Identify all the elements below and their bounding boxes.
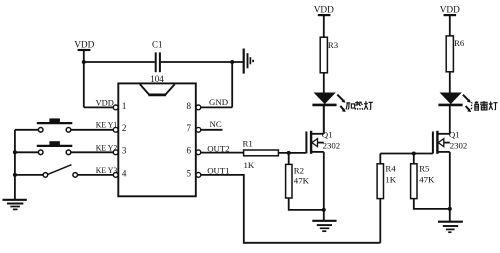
resistor R5 — [411, 164, 430, 199]
capacitor C1 — [152, 39, 163, 72]
switch S2 (push button KEY2) — [15, 141, 113, 154]
wire R2 bottom to source ground — [289, 198, 324, 210]
pin 5 circle — [196, 173, 201, 178]
svg-text:4: 4 — [122, 168, 127, 178]
wire VDD branch to pin 1 — [84, 62, 114, 107]
pin 2 circle — [113, 127, 118, 132]
resistor R4 — [377, 164, 396, 199]
node R5/gate junction — [412, 152, 416, 156]
svg-text:2302: 2302 — [323, 141, 341, 151]
svg-text:5: 5 — [187, 168, 192, 178]
pin 1 circle — [113, 105, 118, 110]
svg-text:KE Y3: KE Y3 — [96, 165, 118, 175]
svg-text:R4: R4 — [385, 164, 396, 174]
wire LED to drain — [449, 106, 451, 134]
LED D1 (heating lamp) — [312, 93, 345, 113]
svg-text:R2: R2 — [294, 165, 304, 175]
svg-text:KE Y1: KE Y1 — [96, 120, 118, 130]
node source/R5 junction — [448, 207, 452, 211]
wire R4 bottom to OUT1 net — [379, 199, 381, 243]
svg-text:1K: 1K — [244, 160, 255, 170]
pin 3 circle — [113, 150, 118, 155]
svg-text:8: 8 — [187, 101, 192, 111]
svg-text:47K: 47K — [419, 174, 435, 184]
wire R3 to LED — [323, 73, 325, 93]
wire R1 to gate Q1 — [278, 152, 306, 154]
wire left rail — [14, 130, 16, 200]
power symbol VDD (left, supply to IC) — [74, 41, 94, 62]
node gate/R2 junction — [287, 151, 291, 155]
power symbol VDD (above R3) — [314, 5, 334, 37]
svg-text:2: 2 — [122, 123, 127, 133]
svg-text:GND: GND — [209, 97, 228, 107]
wire R5 bottom to source ground — [414, 199, 450, 209]
wire riser R4 — [379, 154, 381, 164]
svg-text:VDD: VDD — [440, 5, 460, 15]
svg-text:3: 3 — [122, 146, 127, 156]
svg-text:R3: R3 — [328, 40, 339, 50]
wire R6 to LED — [449, 72, 451, 93]
IC notch — [140, 84, 175, 95]
pin 8 circle — [196, 105, 201, 110]
LED D2 (disinfection lamp) — [438, 93, 471, 113]
node GND rail junction — [230, 60, 234, 64]
wire C1 to ground — [161, 61, 243, 63]
transistor Q1 (right MOSFET 2302) — [433, 129, 467, 153]
wire source down to ground — [323, 152, 325, 221]
IC U1 body — [118, 83, 196, 196]
wire VDD rail to C1 — [84, 61, 155, 63]
pin 7 circle — [196, 127, 201, 132]
wire drain up to LED — [323, 106, 325, 134]
node rail/KEY2 junction — [13, 150, 17, 154]
pin 4 circle — [113, 173, 118, 178]
svg-text:47K: 47K — [294, 176, 310, 186]
wire pin 5 OUT1 to R4 (bottom run) — [201, 175, 380, 243]
svg-text:R5: R5 — [419, 164, 430, 174]
wire junction to R2 — [288, 153, 290, 165]
power symbol VDD (above R6) — [440, 5, 460, 36]
label 加热灯 (heating lamp) — [346, 101, 373, 110]
svg-text:1: 1 — [122, 101, 127, 111]
resistor R1 — [243, 138, 279, 155]
svg-text:NC: NC — [210, 119, 222, 129]
resistor R6 — [446, 36, 465, 72]
svg-text:VDD: VDD — [314, 5, 334, 15]
svg-text:R6: R6 — [454, 38, 465, 48]
svg-text:6: 6 — [187, 146, 192, 156]
svg-text:VDD: VDD — [96, 97, 114, 107]
svg-text:1K: 1K — [385, 174, 396, 184]
svg-text:2302: 2302 — [450, 141, 468, 151]
ground (earth, below Q1 left) — [312, 221, 336, 231]
svg-text:KE Y2: KE Y2 — [96, 142, 118, 152]
ground (earth, below Q1 right) — [438, 222, 463, 233]
switch S1 (push button KEY1) — [15, 118, 113, 132]
svg-text:Q1: Q1 — [449, 129, 460, 139]
wire source down to ground — [449, 152, 451, 222]
ground (earth, top right, rotated) — [244, 49, 253, 74]
wire GND net to pin 8 — [201, 62, 232, 107]
label 消毒灯 (disinfection lamp) — [471, 101, 498, 110]
svg-text:7: 7 — [187, 123, 192, 133]
node rail/KEY3 junction — [13, 173, 17, 177]
node source/R2 junction — [322, 208, 326, 212]
wire NC stub — [201, 129, 223, 131]
wire riser R5 — [413, 154, 415, 164]
resistor R3 — [320, 37, 339, 73]
svg-text:C1: C1 — [152, 39, 163, 49]
node VDD rail junction — [82, 60, 86, 64]
pin 6 circle — [196, 150, 201, 155]
svg-text:R1: R1 — [243, 138, 253, 148]
resistor R2 — [286, 164, 304, 198]
wire gate net R4/R5 to gate — [380, 153, 433, 155]
wire pin 6 OUT2 to R1 — [201, 152, 244, 154]
wire LED to drain — [323, 106, 325, 134]
transistor Q1 (left MOSFET 2302) — [306, 129, 340, 153]
switch S3 (SPST KEY3) — [15, 165, 113, 178]
ground (earth, bottom left) — [3, 200, 27, 210]
